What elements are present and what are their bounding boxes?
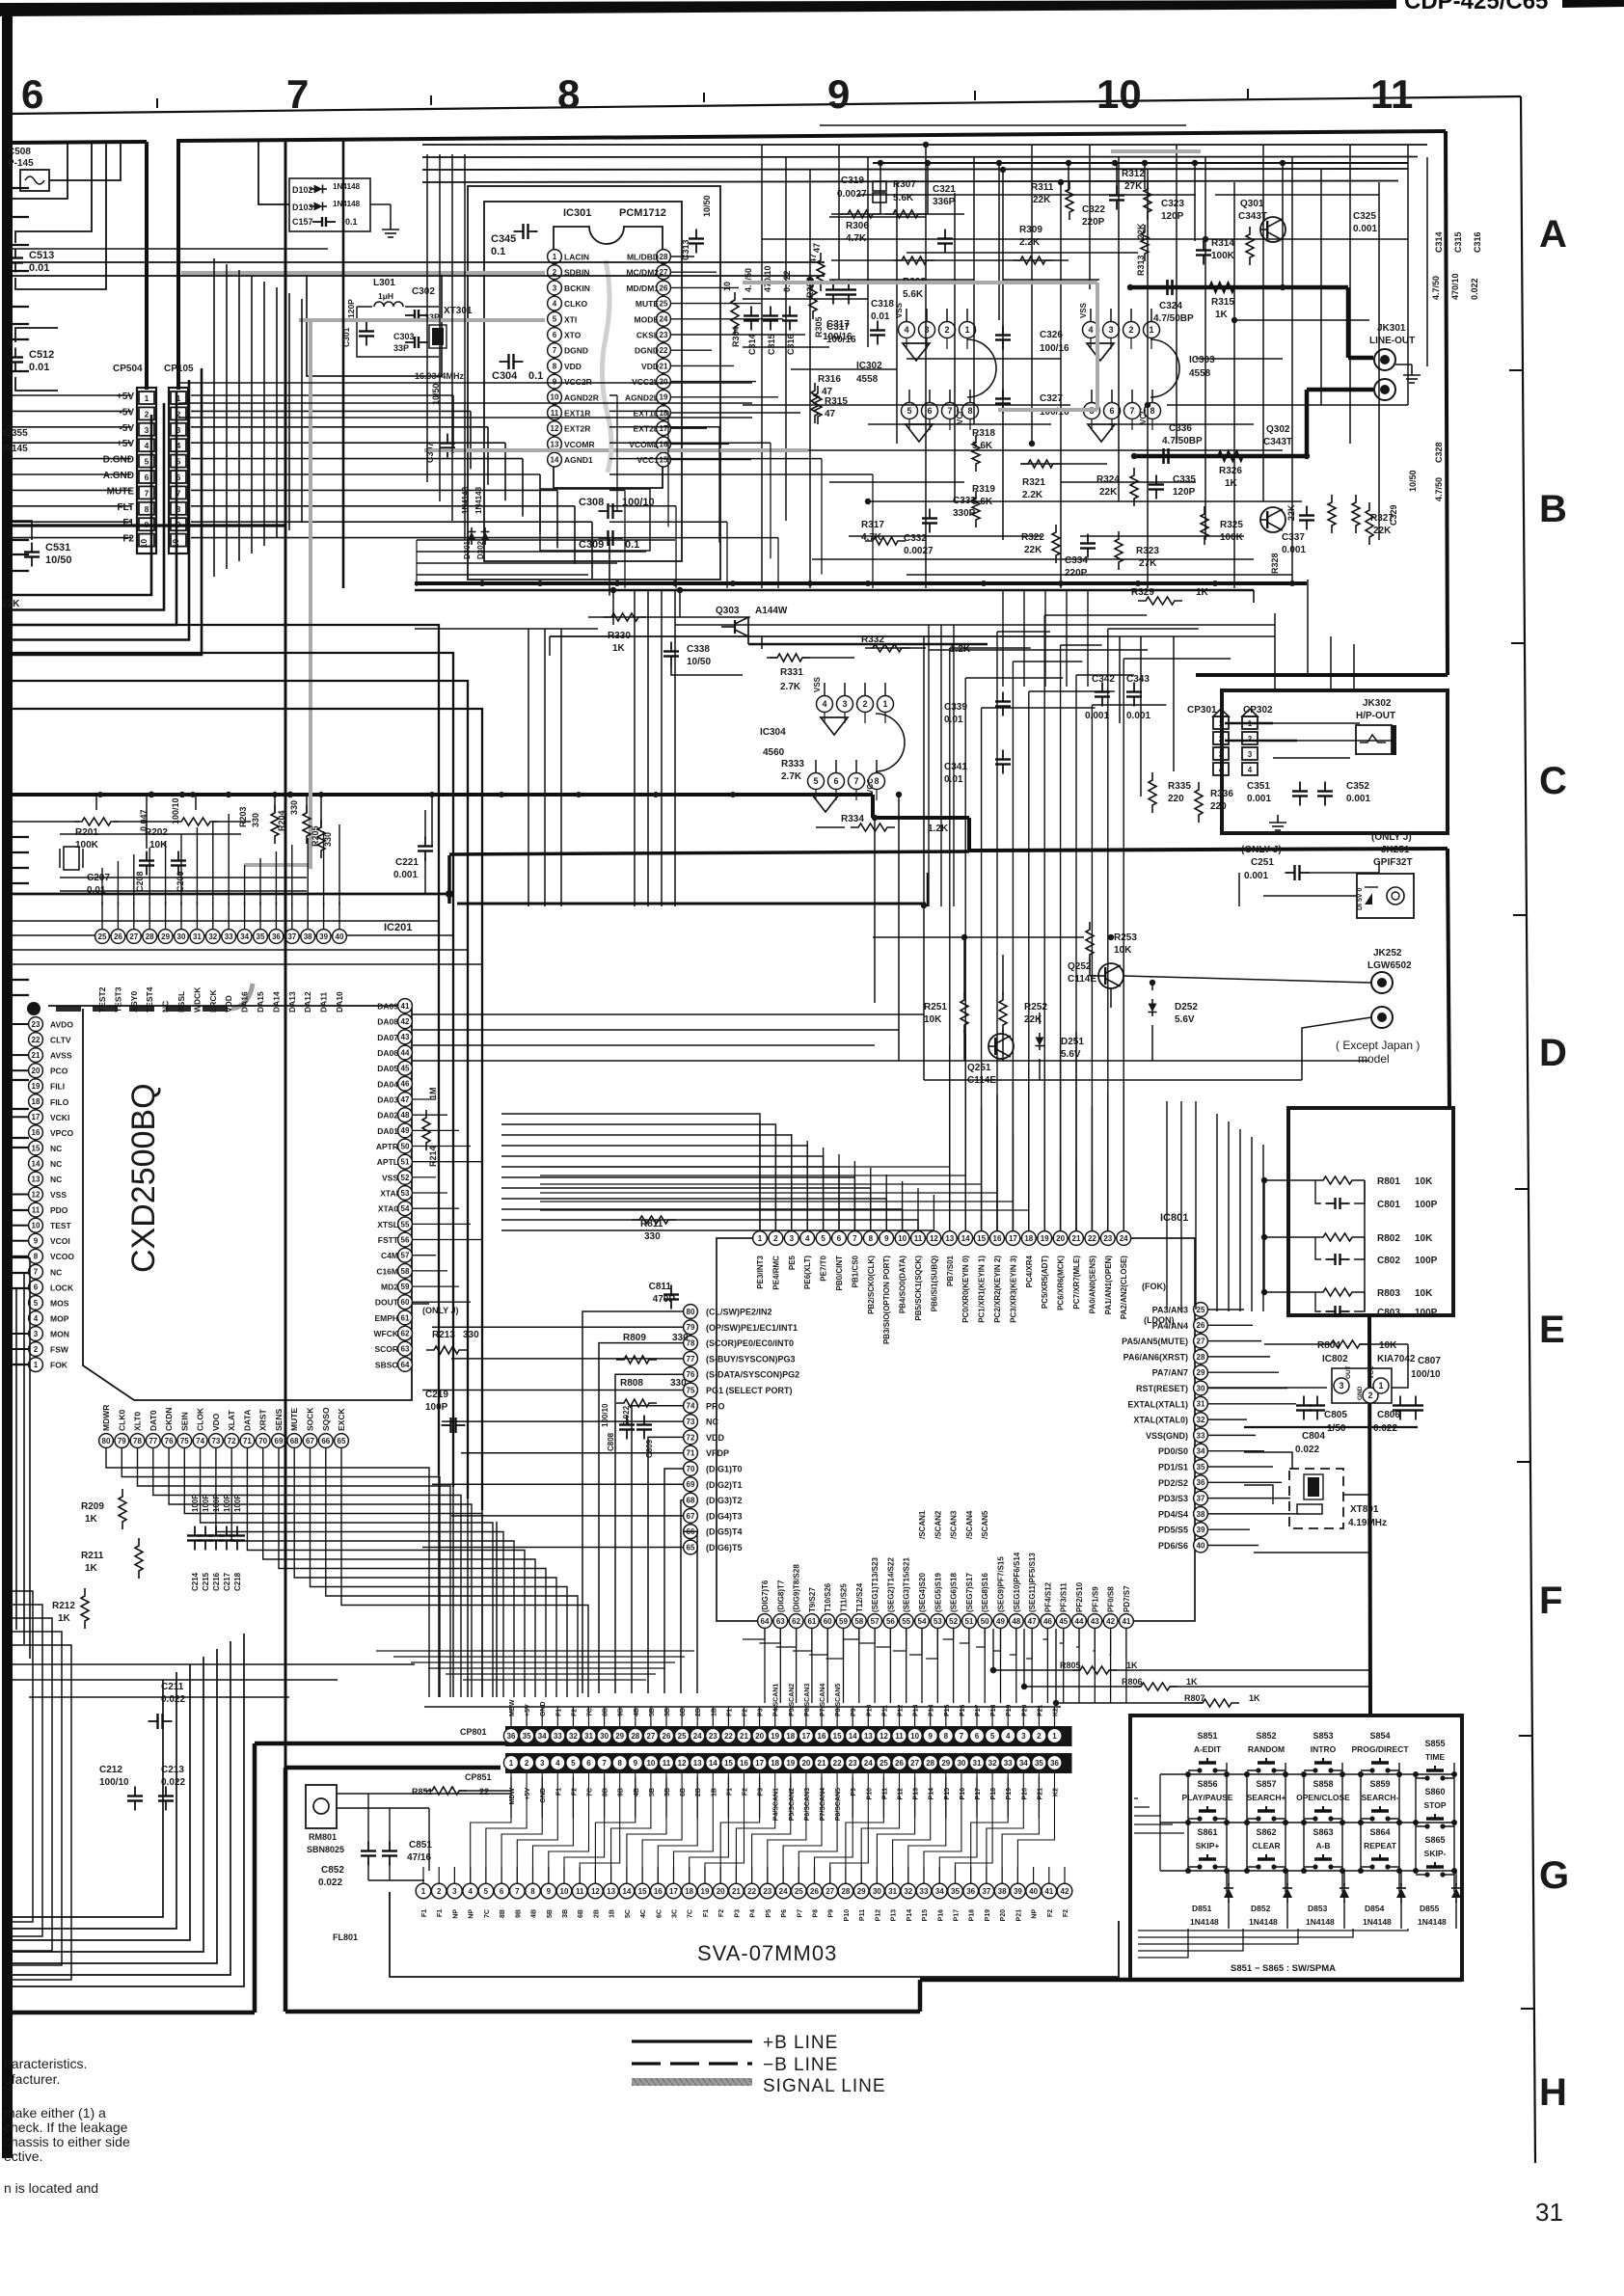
svg-text:RST(RESET): RST(RESET) [1136, 1384, 1188, 1393]
svg-text:1K: 1K [1249, 1693, 1260, 1703]
svg-text:DA16: DA16 [240, 991, 250, 1013]
svg-text:13: 13 [607, 1887, 615, 1896]
svg-text:P3: P3 [734, 1909, 741, 1918]
svg-text:120P: 120P [1173, 487, 1196, 498]
svg-text:9: 9 [553, 378, 557, 387]
svg-text:P14: P14 [929, 1704, 935, 1716]
svg-text:5.6K: 5.6K [903, 289, 924, 300]
svg-text:VSS: VSS [50, 1190, 67, 1200]
svg-text:10: 10 [646, 1759, 655, 1768]
svg-text:51: 51 [964, 1617, 973, 1626]
svg-text:26: 26 [895, 1759, 904, 1768]
svg-text:VCC: VCC [1139, 408, 1148, 424]
svg-text:79: 79 [118, 1437, 126, 1445]
svg-text:D853: D853 [1308, 1904, 1328, 1913]
svg-text:SKIP-: SKIP- [1424, 1849, 1447, 1858]
svg-text:VCOI: VCOI [50, 1236, 70, 1246]
svg-text:36: 36 [1050, 1759, 1059, 1768]
svg-text:39: 39 [1197, 1526, 1205, 1534]
svg-text:NP: NP [469, 1909, 475, 1919]
svg-text:(DIG6)T5: (DIG6)T5 [706, 1543, 743, 1553]
svg-text:R315: R315 [1211, 297, 1234, 308]
svg-text:NP: NP [452, 1909, 459, 1919]
svg-text:47: 47 [825, 409, 836, 419]
svg-text:8B: 8B [500, 1909, 506, 1918]
svg-text:SEARCH+: SEARCH+ [1247, 1793, 1286, 1802]
svg-text:R304: R304 [731, 326, 741, 347]
svg-text:21: 21 [32, 1051, 41, 1060]
svg-text:(SCOR)PE0/EC0/INT0: (SCOR)PE0/EC0/INT0 [706, 1338, 794, 1348]
svg-text:6: 6 [1109, 406, 1114, 416]
svg-text:34: 34 [538, 1732, 547, 1741]
svg-text:PE5: PE5 [788, 1255, 797, 1270]
svg-text:0.022: 0.022 [1373, 1423, 1397, 1434]
svg-text:VSS: VSS [382, 1173, 398, 1182]
svg-text:8B: 8B [603, 1708, 609, 1716]
svg-text:41: 41 [401, 1002, 410, 1011]
svg-text:45: 45 [1059, 1617, 1068, 1626]
svg-text:330P: 330P [953, 508, 976, 519]
svg-text:PB0/CINT: PB0/CINT [835, 1256, 844, 1291]
svg-text:3: 3 [1108, 325, 1113, 335]
svg-text:AVDO: AVDO [50, 1020, 73, 1030]
svg-text:SBN8025: SBN8025 [307, 1845, 344, 1854]
svg-text:XTI: XTI [564, 314, 577, 324]
svg-text:17: 17 [669, 1887, 678, 1896]
svg-text:470/10: 470/10 [763, 265, 772, 292]
svg-text:34: 34 [240, 932, 249, 941]
svg-text:Q303: Q303 [716, 606, 740, 616]
svg-text:38: 38 [998, 1887, 1007, 1896]
svg-text:F1: F1 [726, 1788, 733, 1796]
svg-text:14: 14 [709, 1759, 717, 1768]
svg-text:220: 220 [1210, 801, 1227, 812]
svg-text:P11: P11 [881, 1788, 888, 1799]
svg-text:F2: F2 [571, 1788, 578, 1796]
svg-text:S861: S861 [1197, 1827, 1217, 1837]
svg-text:P7/SCAN4: P7/SCAN4 [820, 1684, 826, 1716]
svg-text:32: 32 [569, 1732, 578, 1741]
svg-text:VDD: VDD [224, 995, 233, 1013]
svg-text:DA07: DA07 [377, 1033, 398, 1042]
svg-text:44: 44 [401, 1048, 410, 1057]
svg-text:CLEAR: CLEAR [1252, 1841, 1280, 1850]
svg-text:S856: S856 [1197, 1779, 1217, 1789]
svg-text:15: 15 [724, 1759, 733, 1768]
svg-text:14: 14 [32, 1159, 41, 1168]
svg-text:MD/DM1: MD/DM1 [626, 284, 659, 293]
svg-text:PA0/AN0(SENS): PA0/AN0(SENS) [1088, 1256, 1096, 1314]
svg-text:P12: P12 [898, 1704, 905, 1716]
svg-text:(S-DATA/SYSCON)PG2: (S-DATA/SYSCON)PG2 [706, 1370, 799, 1380]
svg-text:S858: S858 [1313, 1779, 1333, 1789]
svg-text:LACIN: LACIN [564, 253, 589, 262]
svg-text:14: 14 [961, 1234, 970, 1243]
svg-text:26: 26 [663, 1732, 671, 1741]
svg-text:DAT0: DAT0 [149, 1410, 158, 1431]
svg-text:2: 2 [34, 1345, 39, 1354]
svg-text:S862: S862 [1256, 1827, 1276, 1837]
svg-text:NC: NC [50, 1144, 62, 1153]
svg-text:ufacturer.: ufacturer. [4, 2071, 60, 2087]
svg-text:58: 58 [401, 1267, 410, 1276]
svg-text:MON: MON [50, 1330, 69, 1339]
svg-text:5.6V: 5.6V [1061, 1049, 1081, 1060]
svg-text:D251: D251 [1061, 1037, 1084, 1047]
svg-text:R201: R201 [75, 827, 98, 838]
svg-text:330: 330 [672, 1333, 689, 1343]
svg-text:(ONLY J): (ONLY J) [1241, 845, 1282, 855]
svg-text:P10: P10 [866, 1704, 873, 1716]
svg-text:100/10: 100/10 [99, 1777, 129, 1788]
svg-text:41: 41 [1044, 1887, 1053, 1896]
svg-text:9: 9 [547, 1887, 552, 1896]
svg-text:S851 − S865 : SW/SPMA: S851 − S865 : SW/SPMA [1231, 1963, 1336, 1974]
svg-text:1.2K: 1.2K [928, 824, 949, 834]
svg-text:4C: 4C [640, 1909, 647, 1918]
svg-text:8: 8 [553, 362, 557, 370]
svg-text:3: 3 [553, 284, 557, 292]
svg-text:PF0/S8: PF0/S8 [1107, 1586, 1116, 1612]
svg-text:1N4148: 1N4148 [1306, 1917, 1335, 1927]
svg-text:19: 19 [1041, 1234, 1049, 1243]
svg-text:(FOK): (FOK) [1142, 1282, 1166, 1291]
svg-text:EXT1L: EXT1L [634, 409, 659, 419]
svg-text:R321: R321 [1022, 477, 1045, 488]
svg-text:C317: C317 [826, 319, 850, 330]
svg-text:71: 71 [243, 1437, 252, 1445]
svg-text:21: 21 [660, 362, 668, 370]
svg-text:C314: C314 [747, 334, 757, 355]
svg-text:1: 1 [34, 1361, 39, 1369]
svg-text:P11: P11 [881, 1705, 888, 1716]
svg-text:10: 10 [898, 1234, 907, 1243]
svg-text:4: 4 [805, 1234, 810, 1243]
svg-text:336P: 336P [933, 197, 956, 207]
svg-text:+5V: +5V [525, 1788, 531, 1800]
svg-text:47: 47 [1028, 1617, 1037, 1626]
svg-text:8: 8 [557, 71, 580, 117]
svg-text:DA04: DA04 [377, 1079, 398, 1089]
svg-text:0.022: 0.022 [161, 1694, 185, 1705]
svg-text:37: 37 [1197, 1495, 1205, 1503]
svg-text:1: 1 [1052, 1732, 1057, 1741]
svg-text:P18: P18 [990, 1704, 997, 1716]
svg-text:haracteristics.: haracteristics. [4, 2056, 87, 2071]
svg-text:7C: 7C [587, 1708, 594, 1716]
svg-text:18: 18 [1024, 1234, 1033, 1243]
svg-text:DA05: DA05 [377, 1064, 398, 1073]
svg-text:VPCO: VPCO [50, 1128, 73, 1138]
svg-text:PD6/S6: PD6/S6 [1158, 1541, 1188, 1551]
svg-text:C329: C329 [1389, 504, 1398, 526]
svg-text:P8/SCAN5: P8/SCAN5 [835, 1684, 842, 1716]
svg-text:R316: R316 [818, 374, 841, 385]
svg-text:4: 4 [145, 441, 149, 450]
svg-text:LRCK: LRCK [208, 989, 218, 1013]
svg-text:MDW: MDW [509, 1788, 516, 1805]
svg-text:T10/S26: T10/S26 [824, 1582, 832, 1612]
svg-text:12: 12 [551, 424, 559, 433]
svg-text:T12/S24: T12/S24 [855, 1582, 864, 1612]
svg-text:SOCK: SOCK [306, 1407, 315, 1431]
svg-text:21: 21 [818, 1759, 826, 1768]
svg-text:31: 31 [1197, 1400, 1205, 1409]
svg-text:C316: C316 [1473, 231, 1482, 253]
svg-text:MUTE: MUTE [289, 1408, 299, 1431]
svg-text:100P: 100P [1415, 1256, 1438, 1266]
svg-text:/SCAN3: /SCAN3 [950, 1510, 959, 1539]
svg-text:55: 55 [902, 1617, 910, 1626]
svg-text:PSSL: PSSL [176, 991, 186, 1013]
svg-text:XTO: XTO [564, 331, 582, 340]
svg-text:R213: R213 [432, 1330, 455, 1340]
svg-text:100/10: 100/10 [171, 797, 180, 824]
svg-text:VDO: VDO [211, 1413, 221, 1431]
svg-text:22K: 22K [2, 599, 20, 609]
svg-text:R214: R214 [428, 1146, 438, 1167]
svg-text:1: 1 [421, 1887, 426, 1896]
svg-text:0.001: 0.001 [1126, 711, 1150, 721]
svg-text:23: 23 [660, 331, 668, 339]
svg-text:9: 9 [884, 1234, 889, 1243]
svg-text:P13: P13 [913, 1788, 920, 1800]
svg-text:22: 22 [747, 1887, 756, 1896]
svg-text:4: 4 [1248, 766, 1253, 774]
svg-text:5B: 5B [649, 1788, 656, 1796]
svg-text:0.001: 0.001 [1247, 794, 1271, 804]
svg-text:C345: C345 [491, 233, 516, 245]
svg-text:76: 76 [165, 1437, 174, 1445]
svg-text:CLOK: CLOK [196, 1407, 205, 1431]
svg-text:17: 17 [755, 1759, 764, 1768]
svg-text:D852: D852 [1251, 1904, 1271, 1913]
svg-text:25: 25 [880, 1759, 888, 1768]
svg-text:8: 8 [617, 1759, 622, 1768]
svg-text:VSS: VSS [813, 676, 822, 692]
svg-text:73: 73 [687, 1418, 695, 1426]
svg-text:P16: P16 [960, 1704, 966, 1716]
svg-text:NP: NP [1032, 1909, 1039, 1919]
svg-text:C318: C318 [871, 299, 894, 310]
svg-text:S860: S860 [1424, 1787, 1445, 1796]
svg-text:C219: C219 [425, 1390, 448, 1400]
svg-text:JK251: JK251 [1381, 845, 1410, 855]
svg-text:P5: P5 [766, 1909, 772, 1918]
svg-text:TEST3: TEST3 [113, 986, 122, 1013]
svg-text:22K: 22K [1286, 504, 1296, 521]
svg-text:R331: R331 [780, 667, 803, 678]
svg-text:0.001: 0.001 [393, 870, 418, 880]
svg-text:R209: R209 [81, 1501, 104, 1512]
svg-text:2: 2 [525, 1759, 529, 1768]
svg-text:25: 25 [678, 1732, 687, 1741]
svg-text:62: 62 [792, 1617, 800, 1626]
svg-text:2: 2 [145, 409, 149, 419]
svg-text:F: F [1539, 1580, 1562, 1622]
svg-text:48: 48 [401, 1111, 410, 1120]
svg-text:R211: R211 [81, 1551, 104, 1561]
svg-text:(DIG1)T0: (DIG1)T0 [706, 1465, 743, 1474]
svg-text:7: 7 [145, 488, 149, 498]
svg-text:RM801: RM801 [309, 1832, 337, 1842]
svg-text:14: 14 [622, 1887, 631, 1896]
svg-text:F2: F2 [571, 1709, 578, 1716]
svg-text:69: 69 [687, 1480, 695, 1489]
svg-text:4B: 4B [531, 1909, 538, 1918]
svg-text:45: 45 [401, 1065, 410, 1073]
svg-text:P15: P15 [922, 1909, 929, 1922]
svg-text:220P: 220P [1082, 217, 1105, 228]
svg-text:VCKI: VCKI [50, 1113, 69, 1122]
svg-text:0.001: 0.001 [1085, 711, 1109, 721]
svg-text:2: 2 [1128, 325, 1133, 335]
svg-text:DI 5V 0: DI 5V 0 [1357, 888, 1364, 910]
svg-text:TEST2: TEST2 [97, 986, 107, 1013]
svg-text:23: 23 [849, 1759, 857, 1768]
svg-text:XTAL(XTAL0): XTAL(XTAL0) [1133, 1416, 1188, 1425]
svg-text:100P: 100P [212, 1494, 221, 1512]
svg-text:1K: 1K [1186, 1677, 1198, 1687]
svg-text:70: 70 [258, 1437, 267, 1445]
svg-text:220: 220 [1168, 794, 1184, 804]
svg-text:25: 25 [660, 300, 668, 309]
svg-text:21: 21 [1072, 1234, 1081, 1243]
svg-text:48: 48 [1012, 1617, 1020, 1626]
svg-text:C221: C221 [395, 857, 419, 868]
svg-text:DA08: DA08 [377, 1017, 398, 1027]
svg-text:VFDP: VFDP [706, 1448, 729, 1458]
svg-text:C309: C309 [579, 539, 604, 551]
svg-text:61: 61 [807, 1617, 816, 1626]
svg-text:0.001: 0.001 [1346, 794, 1370, 804]
svg-text:/SCAN5: /SCAN5 [981, 1510, 989, 1539]
svg-text:XLT0: XLT0 [133, 1412, 143, 1431]
svg-text:7C: 7C [484, 1909, 491, 1918]
svg-text:A144W: A144W [755, 606, 788, 616]
svg-text:33: 33 [225, 932, 233, 941]
svg-text:4B: 4B [634, 1788, 640, 1796]
svg-text:P4: P4 [750, 1909, 757, 1918]
svg-text:0.1: 0.1 [528, 370, 543, 382]
svg-text:VCOO: VCOO [50, 1252, 74, 1261]
svg-text:11: 11 [663, 1759, 671, 1768]
svg-text:F2: F2 [1063, 1909, 1069, 1917]
svg-text:330: 330 [323, 832, 333, 847]
svg-text:VCC: VCC [956, 408, 964, 424]
svg-text:63: 63 [401, 1345, 410, 1354]
svg-text:C352: C352 [1346, 781, 1369, 792]
svg-text:PG1 (SELECT PORT): PG1 (SELECT PORT) [706, 1386, 793, 1395]
svg-text:1: 1 [1219, 719, 1224, 728]
svg-text:PD7/S7: PD7/S7 [1123, 1585, 1131, 1612]
svg-text:MD2: MD2 [381, 1283, 398, 1292]
svg-text:9B: 9B [618, 1708, 625, 1716]
svg-text:MOP: MOP [50, 1314, 69, 1324]
svg-text:P9: P9 [851, 1788, 857, 1796]
svg-text:14: 14 [551, 456, 559, 465]
svg-text:VDD: VDD [641, 362, 659, 371]
svg-text:D302: D302 [476, 540, 485, 559]
svg-text:VSS: VSS [1079, 302, 1088, 318]
svg-text:6: 6 [975, 1732, 980, 1741]
svg-text:IC355: IC355 [2, 428, 28, 439]
svg-text:F1: F1 [437, 1909, 444, 1917]
svg-text:PC7/XR7(MLE): PC7/XR7(MLE) [1072, 1256, 1081, 1310]
svg-text:13: 13 [551, 440, 559, 448]
svg-text:GND: GND [1357, 1386, 1364, 1400]
svg-text:F2: F2 [1047, 1909, 1054, 1917]
svg-text:4560: 4560 [763, 747, 785, 758]
svg-text:65: 65 [338, 1437, 346, 1445]
svg-text:64: 64 [761, 1617, 770, 1626]
svg-text:C531: C531 [45, 542, 70, 554]
svg-text:TIME: TIME [1425, 1752, 1446, 1762]
svg-text:(DIG8)T7: (DIG8)T7 [776, 1580, 785, 1612]
svg-text:6: 6 [833, 776, 838, 786]
svg-text:42: 42 [401, 1017, 410, 1026]
svg-text:16: 16 [660, 440, 668, 448]
svg-text:6C: 6C [656, 1909, 663, 1918]
svg-text:D252: D252 [1175, 1002, 1198, 1013]
svg-text:67: 67 [306, 1437, 314, 1445]
svg-text:IC801: IC801 [1160, 1212, 1188, 1224]
svg-text:DA11: DA11 [319, 991, 329, 1013]
svg-text:52: 52 [949, 1617, 958, 1626]
svg-text:C303: C303 [393, 332, 415, 341]
svg-text:23: 23 [32, 1020, 41, 1029]
svg-text:56: 56 [886, 1617, 895, 1626]
svg-text:8: 8 [869, 1234, 874, 1243]
svg-text:D102: D102 [292, 185, 313, 195]
svg-text:PF4/S12: PF4/S12 [1043, 1581, 1052, 1612]
svg-text:37: 37 [982, 1887, 990, 1896]
svg-text:R306: R306 [846, 221, 869, 231]
svg-text:7: 7 [286, 71, 309, 117]
svg-text:R251: R251 [924, 1002, 947, 1013]
svg-text:/SCAN4: /SCAN4 [965, 1510, 974, 1539]
svg-text:1N4148: 1N4148 [1249, 1917, 1278, 1927]
svg-text:8: 8 [874, 776, 879, 786]
svg-text:5B: 5B [547, 1909, 554, 1918]
svg-text:OUT: OUT [1345, 1365, 1352, 1379]
svg-text:PC0/XR0(KEYIN 0): PC0/XR0(KEYIN 0) [961, 1256, 970, 1323]
svg-text:0.1: 0.1 [345, 217, 358, 227]
svg-text:C335: C335 [1173, 474, 1196, 485]
svg-text:4B: 4B [634, 1708, 640, 1716]
svg-text:R322: R322 [1021, 532, 1044, 543]
svg-text:R802: R802 [1377, 1233, 1400, 1244]
svg-text:57: 57 [401, 1252, 410, 1260]
svg-text:C316: C316 [786, 334, 796, 355]
svg-text:47: 47 [822, 387, 833, 397]
svg-text:PA1/AN1(OPEN): PA1/AN1(OPEN) [1104, 1256, 1113, 1315]
svg-text:A-EDIT: A-EDIT [1194, 1744, 1222, 1754]
svg-text:7: 7 [515, 1887, 520, 1896]
svg-text:50: 50 [981, 1617, 989, 1626]
svg-text:PC6/XR6(MCK): PC6/XR6(MCK) [1057, 1256, 1066, 1310]
svg-text:11: 11 [1370, 71, 1413, 117]
svg-text:MODE: MODE [635, 314, 660, 324]
svg-text:SEARCH-: SEARCH- [1362, 1793, 1399, 1802]
svg-text:46: 46 [1043, 1617, 1052, 1626]
svg-text:77: 77 [149, 1437, 157, 1445]
svg-text:R253: R253 [1114, 932, 1137, 943]
svg-text:28: 28 [926, 1759, 934, 1768]
svg-text:P9: P9 [828, 1909, 835, 1918]
svg-text:12: 12 [32, 1190, 41, 1199]
svg-text:16: 16 [993, 1234, 1002, 1243]
